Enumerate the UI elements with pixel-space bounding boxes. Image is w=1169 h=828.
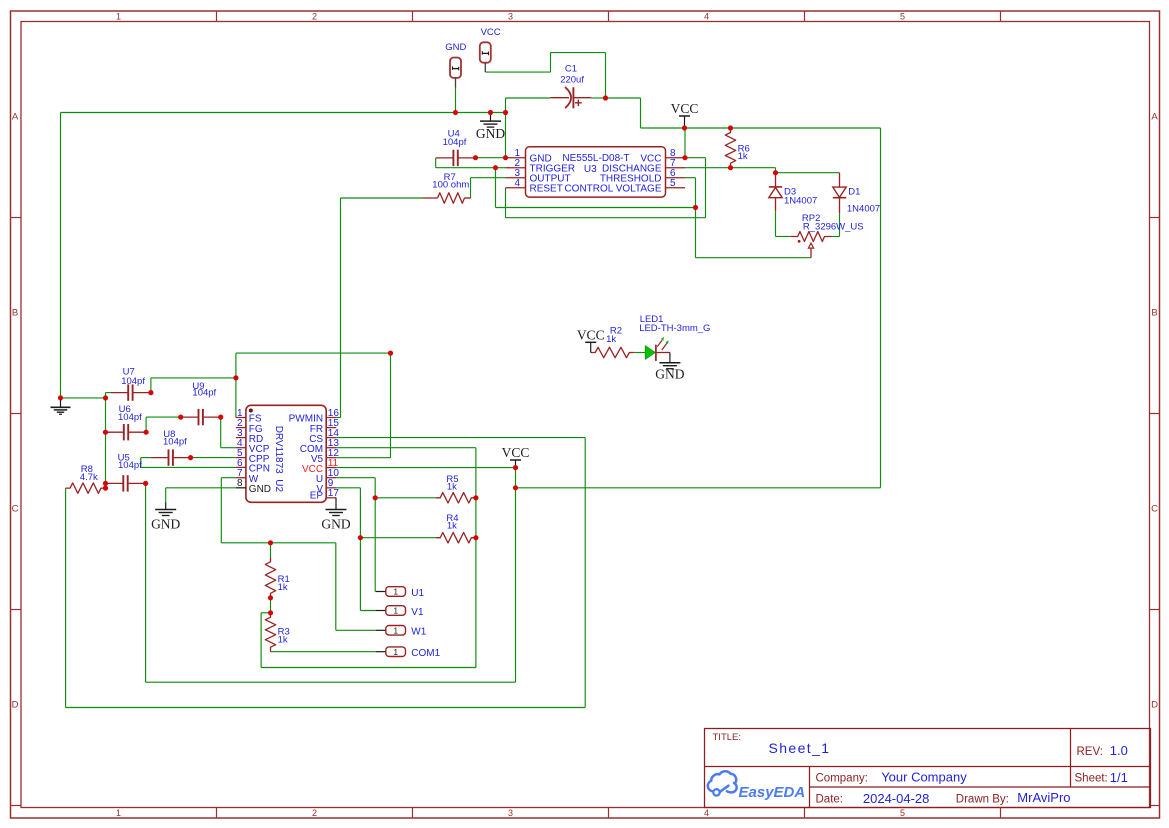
wire y=97.5 to C1 left bbox=[506, 97, 551, 99]
svg-text:Company:: Company: bbox=[816, 773, 868, 785]
svg-text:R_3296W_US: R_3296W_US bbox=[803, 222, 864, 233]
wire U3 pin8 drop from VCC rail bbox=[684, 128, 686, 158]
svg-text:COM1: COM1 bbox=[411, 648, 440, 659]
wire FS net y=352.6 bbox=[236, 352, 391, 354]
wire R1 top from W net bbox=[270, 543, 272, 558]
svg-text:17: 17 bbox=[328, 488, 340, 499]
wire U2 pin8 GND to ground flag bbox=[166, 487, 236, 489]
VCC net label at U2 pin11 bbox=[510, 459, 521, 461]
svg-text:1k: 1k bbox=[278, 635, 288, 646]
svg-text:1: 1 bbox=[393, 647, 398, 657]
U2 pin 3 RD bbox=[236, 437, 246, 439]
wire GND rail horizontal y=112 bbox=[61, 112, 506, 114]
svg-text:5: 5 bbox=[670, 178, 676, 189]
wire RESET loop y=217.2 bbox=[506, 217, 706, 219]
title block outline bbox=[705, 729, 1151, 808]
svg-text:4: 4 bbox=[514, 178, 520, 189]
svg-text:8: 8 bbox=[237, 478, 243, 489]
wire pin8 to RESET loop right bbox=[685, 157, 706, 159]
wire U4 right to pin1 junction bbox=[476, 157, 506, 159]
svg-text:W1: W1 bbox=[411, 627, 426, 638]
svg-text:D: D bbox=[12, 700, 19, 711]
wire RP2 right to D1 bbox=[832, 236, 840, 238]
svg-text:100 ohm: 100 ohm bbox=[432, 180, 469, 191]
svg-text:RESET: RESET bbox=[530, 183, 563, 194]
svg-text:2024-04-28: 2024-04-28 bbox=[863, 791, 930, 806]
svg-text:A: A bbox=[1151, 112, 1158, 123]
wire COM net up x=260.6 bbox=[260, 613, 262, 668]
resistor R3 1k bbox=[265, 613, 275, 652]
resistor R4 1k bbox=[436, 533, 476, 543]
VCC net label at R2 bbox=[585, 341, 596, 343]
wire diode top rail y=172.2 bbox=[776, 172, 840, 174]
wire TRIGGER net vertical x=495 bbox=[495, 168, 497, 208]
wire to U3 pin3 OUTPUT bbox=[471, 177, 506, 179]
wire VCC netport run: down x=605 bbox=[605, 53, 607, 98]
wire VCC rail down x=640 bbox=[640, 98, 642, 128]
svg-text:EasyEDA: EasyEDA bbox=[739, 784, 806, 801]
svg-text:Sheet:: Sheet: bbox=[1075, 773, 1108, 785]
svg-text:220uf: 220uf bbox=[560, 74, 584, 85]
wire to U2 pin4 VCP bbox=[221, 447, 236, 449]
svg-text:U1: U1 bbox=[411, 588, 424, 599]
VCC net label at top rail bbox=[679, 115, 690, 117]
svg-text:1k: 1k bbox=[738, 151, 748, 162]
wire W net vertical x=335.3 bbox=[335, 543, 337, 631]
op-amp U3 NE555L-D08-T body bbox=[526, 147, 666, 197]
U3 pin 4 RESET bbox=[506, 187, 526, 189]
svg-text:V1: V1 bbox=[411, 607, 424, 618]
svg-text:104pf: 104pf bbox=[118, 412, 142, 423]
U2 pin 12 V5 bbox=[326, 457, 336, 459]
U2 pin 6 CPN bbox=[236, 466, 246, 468]
wire R8 left vertical x=65.1 bbox=[65, 488, 67, 707]
wire W net to W1 connector bbox=[336, 629, 376, 631]
wire VCC vertical x=515 bbox=[515, 468, 517, 683]
svg-text:104pf: 104pf bbox=[118, 460, 142, 471]
svg-text:DRV11873 U2: DRV11873 U2 bbox=[273, 426, 284, 493]
wire U2 pin13 COM y=447.2 bbox=[336, 447, 476, 449]
svg-text:GND: GND bbox=[151, 517, 180, 532]
svg-text:REV:: REV: bbox=[1077, 746, 1103, 758]
svg-text:1: 1 bbox=[393, 587, 398, 597]
wire W net y=542.3 bbox=[221, 542, 335, 544]
svg-text:GND: GND bbox=[655, 367, 684, 382]
U2 pin 7 W bbox=[236, 477, 246, 479]
svg-text:104pf: 104pf bbox=[192, 388, 216, 399]
wire CS vertical x=584.7 bbox=[584, 438, 586, 708]
wire OUTPUT to R7 left y=197.5 bbox=[341, 197, 423, 199]
svg-text:B: B bbox=[12, 308, 18, 319]
wire D1 bottom down x=839 bbox=[839, 213, 841, 236]
svg-text:MrAviPro: MrAviPro bbox=[1017, 790, 1070, 805]
wire U2 pin1 FS vertical x=235.4 bbox=[235, 353, 237, 417]
svg-text:C: C bbox=[1151, 504, 1158, 515]
wire VCC netport run: top y=52.1 bbox=[551, 52, 606, 54]
ground flag for U2 EP pin bbox=[335, 498, 337, 510]
U2 pin 4 VCP bbox=[236, 447, 246, 449]
wire RESET loop up to pin4 bbox=[505, 188, 507, 218]
wire R2 right to LED1 bbox=[634, 352, 645, 354]
U2 pin 10 U bbox=[326, 477, 336, 479]
svg-text:3: 3 bbox=[508, 12, 513, 22]
wire U net vertical x=374.7 bbox=[374, 478, 376, 592]
wire to U2 pin6 CPN y=466.9 bbox=[141, 466, 236, 468]
capacitor U6 104pf bbox=[106, 431, 124, 433]
capacitor C1 220uf bbox=[550, 97, 569, 99]
resistor R6 1k bbox=[725, 128, 735, 168]
wire CS bottom rail y=707 bbox=[66, 707, 586, 709]
wire VCC rail y=487.3 bbox=[516, 487, 881, 489]
svg-text:1k: 1k bbox=[447, 481, 457, 492]
svg-text:4.7k: 4.7k bbox=[80, 472, 98, 483]
wire jog to U7 left lead bbox=[106, 392, 112, 394]
U3 pin 7 DISCHANGE bbox=[666, 167, 686, 169]
wire GND rail to earth junction bbox=[61, 397, 106, 399]
resistor R8 4.7k bbox=[66, 483, 106, 493]
wire U3 pin6 jog bbox=[685, 177, 696, 179]
wire VCC rail right vertical x=880 bbox=[880, 128, 882, 488]
wire RESET loop vertical x=705 bbox=[705, 158, 707, 218]
U2 pin 15 FR bbox=[326, 427, 336, 429]
svg-text:1: 1 bbox=[116, 808, 121, 818]
wire VCC netport run: up x=550 bbox=[550, 53, 552, 73]
wire GND rail left vertical x=60 bbox=[60, 113, 62, 398]
wire C1 right to junction bbox=[591, 97, 605, 99]
wire D3 bottom down x=775 bbox=[775, 211, 777, 236]
wire W net vertical x=220.8 bbox=[220, 478, 222, 543]
resistor R2 1k bbox=[591, 347, 634, 357]
svg-text:EP: EP bbox=[310, 490, 324, 501]
U2 pin 9 V bbox=[326, 487, 336, 489]
wire U2 pin7 W y=477.2 left bbox=[221, 477, 236, 479]
frame column ticks top bbox=[216, 11, 218, 22]
wire U7 right riser x=150.4 bbox=[150, 378, 152, 393]
resistor R5 1k bbox=[436, 493, 476, 503]
diode D1 1N4007 bbox=[839, 173, 841, 187]
svg-text:3: 3 bbox=[508, 808, 513, 818]
wire U2 pin9 V y=487.3 bbox=[336, 487, 360, 489]
svg-text:U3: U3 bbox=[584, 164, 597, 175]
U2 pin 17 EP bbox=[326, 497, 336, 499]
svg-text:104pf: 104pf bbox=[163, 437, 187, 448]
svg-text:Sheet_1: Sheet_1 bbox=[769, 740, 831, 756]
U3 pin 8 VCC bbox=[666, 157, 686, 159]
wire U8 right to U2 pin5 CPP bbox=[191, 457, 236, 459]
wire R1 bottom to R3 top bbox=[270, 598, 272, 613]
wire U4 left corner down bbox=[435, 158, 437, 168]
svg-text:1/1: 1/1 bbox=[1110, 770, 1128, 785]
wire THRESHOLD net vertical x=695 bbox=[695, 178, 697, 258]
svg-text:VCC: VCC bbox=[577, 327, 605, 342]
wire to U2 pin12 V5 bbox=[336, 457, 390, 459]
wire U7 net y=377.4 bbox=[151, 377, 236, 379]
wire COM net vertical x=475.4 bbox=[475, 448, 477, 668]
svg-text:TITLE:: TITLE: bbox=[713, 732, 742, 743]
wire V net to V1 connector bbox=[360, 610, 376, 612]
svg-text:Date:: Date: bbox=[816, 794, 844, 806]
wire VCC rail y=127.5 bbox=[641, 127, 881, 129]
resistor R1 1k bbox=[265, 557, 275, 598]
wire DISCHARGE jog down at x=775 bbox=[775, 168, 777, 173]
wire U3 pin7 DISCHARGE y=167.2 bbox=[685, 167, 776, 169]
svg-text:GND: GND bbox=[321, 517, 350, 532]
LED LED1 LED-TH-3mm_G bbox=[645, 346, 655, 360]
svg-text:104pf: 104pf bbox=[121, 376, 145, 387]
wire PWMIN vertical x=340 bbox=[340, 198, 342, 418]
svg-text:C: C bbox=[12, 504, 19, 515]
svg-text:104pf: 104pf bbox=[443, 137, 467, 148]
U2 pin 16 PWMIN bbox=[326, 417, 336, 419]
svg-text:1: 1 bbox=[393, 625, 398, 635]
svg-text:VCC: VCC bbox=[671, 101, 699, 116]
wire U6 to U9 left y=416.6 bbox=[146, 416, 181, 418]
U3 pin 2 TRIGGER bbox=[506, 167, 526, 169]
U2 pin1 orientation dot bbox=[249, 409, 253, 413]
wire U2 pin10 U y=477.2 bbox=[336, 477, 375, 479]
wire R7 right corner bbox=[464, 197, 470, 199]
wire x=505 vertical C1-left to U3 pin1 bbox=[505, 98, 507, 158]
wire U6 right riser x=145.6 bbox=[145, 417, 147, 432]
svg-text:1k: 1k bbox=[447, 521, 457, 532]
wire D3 to RP2 left bbox=[776, 236, 791, 238]
svg-text:5: 5 bbox=[900, 808, 905, 818]
svg-text:1N4007: 1N4007 bbox=[784, 196, 817, 207]
connector U1 bbox=[376, 591, 386, 593]
U2 pin 14 CS bbox=[326, 437, 336, 439]
wire U net to R5 left y=497.3 bbox=[375, 497, 436, 499]
U3 pin 3 OUTPUT bbox=[506, 177, 526, 179]
wire COM net to R1/R3 junction bbox=[261, 612, 270, 614]
wire U8 left jog bbox=[141, 457, 151, 459]
svg-text:D: D bbox=[1151, 700, 1158, 711]
wire cap-chain vertical x=105 bbox=[105, 393, 107, 489]
svg-text:GND: GND bbox=[476, 126, 505, 141]
wire PWMIN stub join bbox=[336, 417, 340, 419]
LED1 arrows bbox=[657, 340, 662, 347]
U3 pin 6 THRESHOLD bbox=[666, 177, 686, 179]
U2 pin 1 FS bbox=[236, 417, 246, 419]
wire R3 bottom to COM1 connector y=651.2 bbox=[271, 651, 377, 653]
wire GND netport drop x=455 bbox=[455, 87, 457, 113]
svg-text:VCC: VCC bbox=[481, 27, 501, 38]
svg-text:LED-TH-3mm_G: LED-TH-3mm_G bbox=[639, 323, 710, 334]
wire U2 pin11 VCC y=467.1 bbox=[336, 467, 515, 469]
wire FS-V5 vertical x=390 bbox=[390, 353, 392, 458]
frame row ticks left bbox=[11, 217, 22, 219]
wire U9 right drop x=220.2 bbox=[220, 417, 222, 448]
svg-text:Your Company: Your Company bbox=[881, 770, 967, 785]
wire V net vertical x=359.9 bbox=[359, 488, 361, 611]
svg-text:2: 2 bbox=[312, 12, 317, 22]
svg-text:1: 1 bbox=[393, 606, 398, 616]
capacitor U5 104pf bbox=[106, 482, 124, 484]
svg-text:4: 4 bbox=[704, 12, 709, 22]
svg-text:1k: 1k bbox=[606, 334, 616, 345]
connector W1 bbox=[376, 629, 386, 631]
svg-text:2: 2 bbox=[312, 808, 317, 818]
U3 pin 1 GND bbox=[506, 157, 526, 159]
svg-text:5: 5 bbox=[900, 12, 905, 22]
svg-text:GND: GND bbox=[445, 42, 466, 53]
wire VCC rail y=97.5 to corner bbox=[606, 97, 641, 99]
wire THRESHOLD to RP2 wiper y=257.2 bbox=[696, 257, 812, 259]
svg-text:CONTROL VOLTAGE: CONTROL VOLTAGE bbox=[564, 183, 661, 194]
svg-text:1N4007: 1N4007 bbox=[847, 204, 880, 215]
svg-text:Drawn By:: Drawn By: bbox=[956, 794, 1009, 806]
svg-text:B: B bbox=[1151, 308, 1157, 319]
wire TRIGGER net y=207 bbox=[496, 207, 696, 209]
frame column ticks bottom bbox=[216, 808, 218, 819]
wire U5 right drop x=145.1 (VCC) bbox=[145, 483, 147, 682]
U2 pin 5 CPP bbox=[236, 457, 246, 459]
wire U net to U1 connector bbox=[375, 591, 376, 593]
U3 pin 5 CONTROL VOLTAGE bbox=[666, 187, 686, 189]
IC U2 DRV11873 body bbox=[246, 405, 326, 502]
wire V net to R4 left y=537.2 bbox=[360, 537, 435, 539]
wire COM net bottom y=667 bbox=[261, 667, 476, 669]
svg-text:NE555L-D08-T: NE555L-D08-T bbox=[562, 153, 629, 164]
frame row ticks right bbox=[1150, 217, 1160, 219]
svg-text:A: A bbox=[12, 112, 19, 123]
svg-text:4: 4 bbox=[704, 808, 709, 818]
wire R7 up to pin3 level bbox=[470, 178, 472, 198]
ground flag for LED1 cathode bbox=[669, 353, 671, 363]
svg-text:C1: C1 bbox=[565, 64, 577, 75]
connector V1 bbox=[376, 610, 386, 612]
svg-text:1: 1 bbox=[116, 12, 121, 22]
U2 pin 8 GND bbox=[236, 487, 246, 489]
U2 pin 11 VCC bbox=[326, 467, 336, 469]
svg-text:VCC: VCC bbox=[502, 445, 530, 460]
capacitor U7 104pf bbox=[111, 392, 128, 394]
EasyEDA logo cloud bbox=[708, 771, 737, 792]
U2 pin 13 COM bbox=[326, 447, 336, 449]
wire VCC netport run: y=71.6 bbox=[485, 71, 550, 73]
potentiometer RP2 R_3296W_US bbox=[791, 232, 832, 242]
svg-text:1k: 1k bbox=[278, 582, 288, 593]
wire U4 to U3 pin2 TRIGGER y=167.2 bbox=[436, 167, 506, 169]
svg-text:D1: D1 bbox=[848, 187, 860, 198]
U2 pin 2 FG bbox=[236, 427, 246, 429]
connector COM1 bbox=[376, 651, 386, 653]
capacitor U4 104pf bbox=[436, 157, 454, 159]
ground flag for U2 GND pin bbox=[165, 488, 167, 503]
svg-text:GND: GND bbox=[249, 484, 271, 495]
capacitor U9 104pf bbox=[181, 416, 199, 418]
svg-text:1.0: 1.0 bbox=[1110, 743, 1128, 758]
ground flag near U3 pin1 area bbox=[490, 113, 492, 122]
diode D3 1N4007 bbox=[775, 173, 777, 187]
wire U8 left drop x=140.3 bbox=[140, 458, 142, 468]
wire U2 pin14 CS y=437.1 bbox=[336, 437, 585, 439]
ground symbol (earth) at left rail bbox=[60, 398, 62, 407]
resistor R7 100 ohm bbox=[422, 197, 437, 199]
wire VCC bottom rail y=681.7 bbox=[146, 681, 516, 683]
capacitor U8 104pf bbox=[151, 457, 169, 459]
